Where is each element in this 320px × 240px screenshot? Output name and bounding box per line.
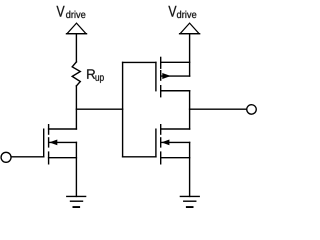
ground right bbox=[180, 196, 199, 207]
transistor Q1 (left NMOS) bbox=[44, 125, 77, 164]
wire drain rail bbox=[189, 91, 191, 129]
label V_drive left bbox=[57, 6, 65, 17]
wire output bbox=[190, 108, 247, 110]
power V_drive left bbox=[67, 23, 87, 34]
ground left bbox=[67, 196, 86, 207]
transistor Q2 (PMOS) bbox=[156, 57, 190, 96]
label Rup bbox=[87, 69, 95, 78]
transistor Q3 (right NMOS) bbox=[156, 125, 190, 164]
wire bbox=[75, 34, 77, 62]
node A wire bbox=[76, 108, 122, 110]
resistor Rup bbox=[72, 62, 80, 86]
node output port bbox=[247, 105, 257, 115]
wire NMOS gate tap bbox=[123, 156, 156, 158]
wire input bbox=[11, 156, 44, 158]
wire source down bbox=[75, 142, 77, 196]
wire bbox=[189, 34, 191, 76]
wire gate rail bbox=[122, 62, 124, 156]
node input port bbox=[1, 152, 11, 162]
power V_drive right bbox=[180, 23, 200, 34]
wire PMOS gate tap bbox=[123, 61, 156, 63]
wire source down bbox=[189, 142, 191, 196]
wire bbox=[75, 86, 77, 129]
label V_drive right bbox=[168, 6, 176, 17]
